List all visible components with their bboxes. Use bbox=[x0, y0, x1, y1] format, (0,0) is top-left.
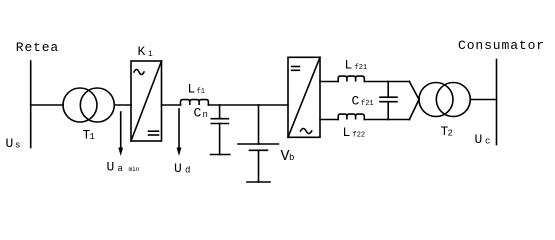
svg-text:d: d bbox=[185, 166, 190, 176]
inductor Lf22 bbox=[338, 114, 364, 119]
label Consumator bbox=[458, 38, 545, 53]
wire bbox=[114, 104, 131, 106]
label Uc bbox=[475, 132, 491, 147]
svg-text:s: s bbox=[15, 141, 20, 151]
capacitor Cn bbox=[211, 105, 230, 155]
svg-text:Consumator: Consumator bbox=[458, 38, 545, 53]
wire bbox=[409, 82, 419, 100]
svg-text:min: min bbox=[129, 166, 140, 173]
arrow Ua min bbox=[118, 112, 123, 156]
wire bbox=[409, 100, 419, 120]
svg-text:f21: f21 bbox=[355, 64, 368, 72]
battery Vb bbox=[238, 105, 278, 182]
label Lf22 bbox=[343, 125, 366, 140]
transformer T2 bbox=[419, 83, 470, 117]
label Retea bbox=[16, 40, 59, 55]
svg-text:U: U bbox=[174, 161, 182, 176]
svg-text:U: U bbox=[6, 136, 14, 151]
transformer T1 bbox=[63, 88, 114, 122]
wire bbox=[320, 119, 338, 121]
label T1 bbox=[83, 128, 95, 143]
label Ud bbox=[174, 161, 190, 176]
svg-text:a: a bbox=[118, 164, 124, 174]
bus bar Consumator bbox=[496, 60, 498, 145]
arrow Ud bbox=[177, 109, 182, 156]
wire bbox=[320, 81, 338, 83]
svg-text:n: n bbox=[203, 110, 208, 120]
wire bbox=[162, 104, 181, 106]
svg-text:1: 1 bbox=[90, 132, 95, 142]
label T2 bbox=[441, 124, 453, 139]
label Lf21 bbox=[345, 58, 368, 73]
svg-text:f1: f1 bbox=[197, 88, 205, 96]
svg-text:U: U bbox=[475, 132, 483, 147]
label Ua min bbox=[107, 160, 140, 175]
svg-text:L: L bbox=[345, 58, 353, 73]
label Lf1 bbox=[188, 82, 205, 97]
svg-text:c: c bbox=[485, 137, 490, 147]
label Us bbox=[6, 136, 21, 151]
inverter K2 bbox=[288, 57, 320, 137]
label Vb bbox=[281, 148, 295, 165]
svg-text:C: C bbox=[352, 94, 360, 109]
wire bbox=[470, 99, 496, 101]
label K1 bbox=[138, 44, 154, 59]
svg-text:Retea: Retea bbox=[16, 40, 59, 55]
svg-text:L: L bbox=[188, 82, 196, 97]
svg-text:L: L bbox=[343, 125, 351, 140]
wire bbox=[31, 104, 64, 106]
label Cn bbox=[194, 106, 208, 121]
svg-text:C: C bbox=[194, 106, 202, 121]
svg-text:f21: f21 bbox=[361, 100, 374, 108]
svg-text:1: 1 bbox=[148, 50, 153, 59]
wire bbox=[364, 81, 409, 83]
converter K1 bbox=[131, 61, 162, 141]
label Cf21 bbox=[352, 94, 374, 109]
wire bbox=[364, 119, 409, 121]
inductor Lf1 bbox=[181, 100, 209, 105]
svg-text:2: 2 bbox=[448, 129, 453, 139]
inductor Lf21 bbox=[338, 76, 364, 81]
bus bar Retea bbox=[30, 61, 32, 148]
svg-text:K: K bbox=[138, 44, 146, 59]
svg-text:U: U bbox=[107, 160, 115, 175]
capacitor Cf21 bbox=[380, 82, 397, 120]
wire bbox=[208, 104, 288, 106]
svg-text:f22: f22 bbox=[353, 132, 366, 140]
svg-text:b: b bbox=[289, 153, 294, 163]
